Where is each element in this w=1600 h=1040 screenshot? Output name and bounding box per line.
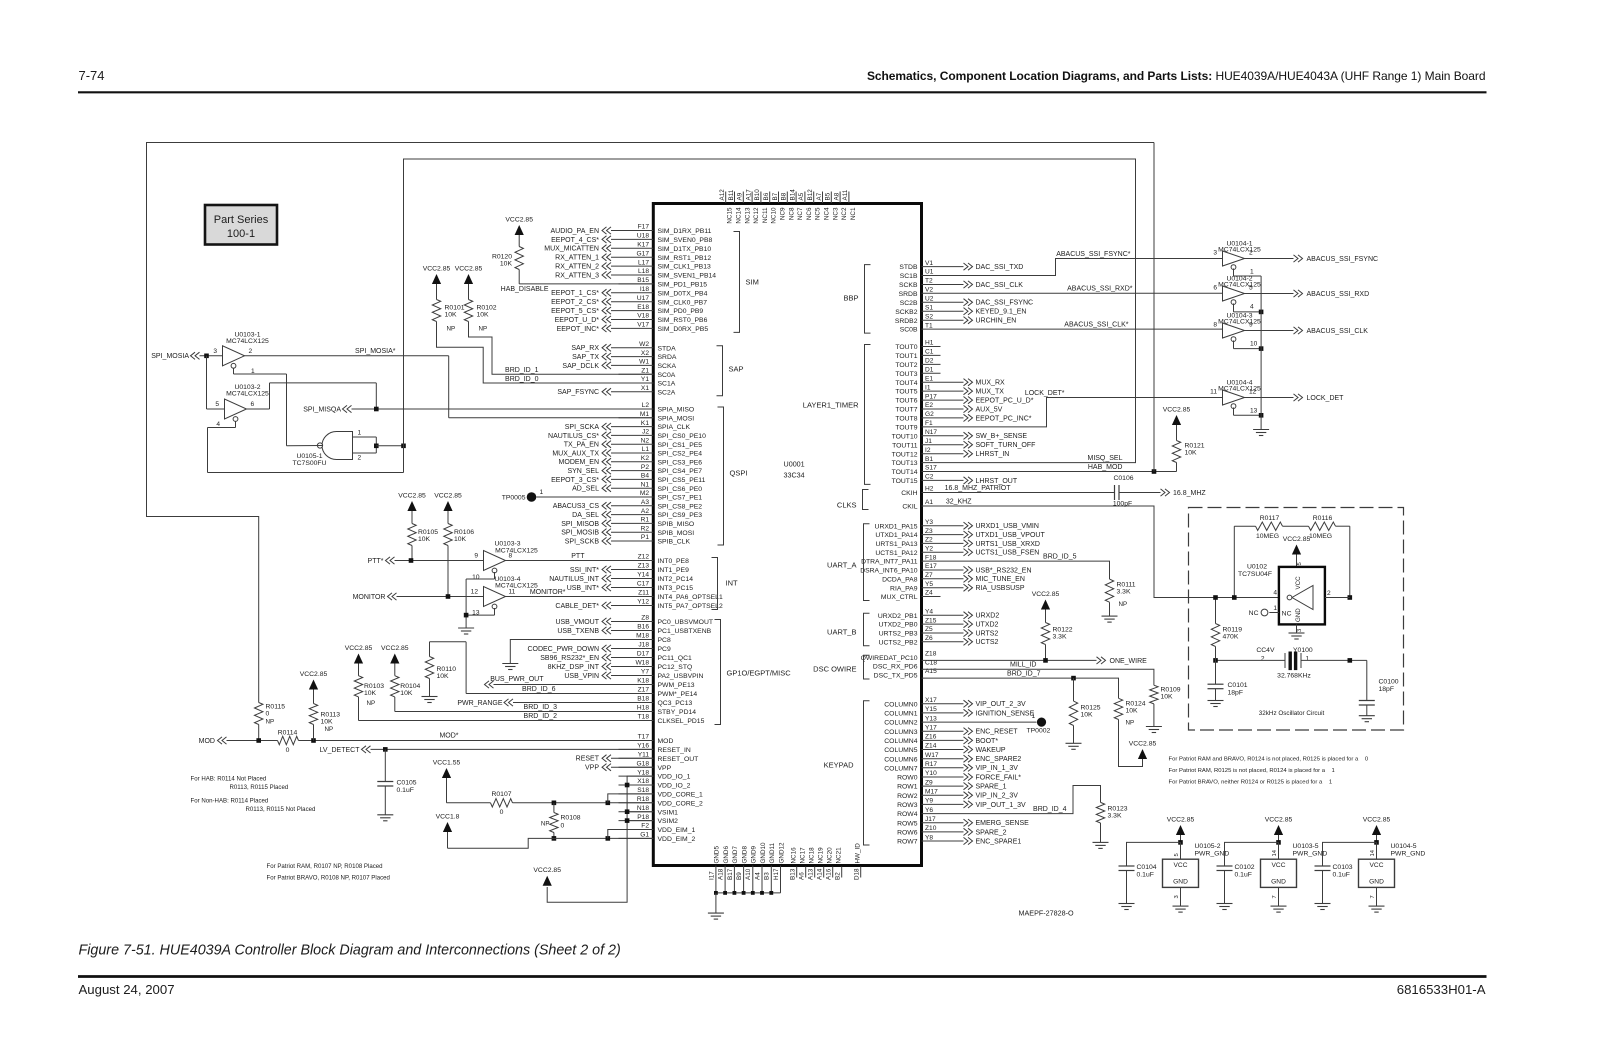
- svg-text:R0114: R0114: [278, 730, 298, 737]
- svg-text:TC7SU04F: TC7SU04F: [1238, 571, 1272, 578]
- svg-text:ENC_SPARE2: ENC_SPARE2: [976, 756, 1022, 763]
- ground: [1315, 903, 1331, 905]
- svg-text:100-1: 100-1: [227, 228, 255, 240]
- svg-text:MILL_ID: MILL_ID: [1010, 662, 1036, 669]
- resistor R0102: [464, 300, 472, 322]
- svg-text:2: 2: [249, 348, 253, 355]
- svg-text:RESET_OUT: RESET_OUT: [658, 756, 699, 763]
- nand input pins: [353, 436, 377, 438]
- VPP signal: [602, 764, 607, 771]
- svg-text:TOUT2: TOUT2: [895, 362, 917, 369]
- svg-text:D1: D1: [925, 367, 934, 374]
- svg-text:R0107: R0107: [491, 791, 511, 798]
- svg-text:DSRA_INT6_PA10: DSRA_INT6_PA10: [860, 568, 918, 575]
- svg-text:UART_A: UART_A: [827, 561, 856, 570]
- svg-text:Y11: Y11: [638, 752, 650, 759]
- svg-text:P2: P2: [641, 464, 649, 471]
- svg-text:5: 5: [1297, 562, 1303, 565]
- svg-text:H1: H1: [925, 340, 934, 347]
- svg-text:SAP: SAP: [729, 365, 744, 374]
- svg-text:Y1: Y1: [641, 376, 649, 383]
- svg-text:VCC2.85: VCC2.85: [1129, 741, 1157, 748]
- svg-text:ENC_SPARE1: ENC_SPARE1: [976, 838, 1022, 845]
- svg-text:U2: U2: [925, 296, 934, 303]
- svg-text:EEPOT_3_CS*: EEPOT_3_CS*: [551, 477, 599, 484]
- wire ABACUS_SSI_FSYNC output: [1245, 258, 1294, 260]
- svg-text:RX_ATTEN_3: RX_ATTEN_3: [555, 272, 599, 279]
- svg-text:INT: INT: [726, 579, 739, 588]
- svg-text:NP: NP: [266, 719, 275, 726]
- svg-text:TOUT9: TOUT9: [895, 425, 917, 432]
- svg-text:PTT*: PTT*: [368, 558, 384, 565]
- svg-text:SPI_CS3_PE6: SPI_CS3_PE6: [658, 459, 703, 466]
- svg-text:CC4V: CC4V: [1256, 647, 1275, 654]
- svg-text:BRD_ID_4: BRD_ID_4: [1033, 806, 1067, 813]
- wire 32_KHZ: [922, 506, 1279, 598]
- wire ABACUS_SSI_CLK output: [1245, 330, 1294, 332]
- svg-text:32_KHZ: 32_KHZ: [946, 499, 972, 506]
- svg-text:32.768KHz: 32.768KHz: [1277, 673, 1311, 680]
- capacitor C0102 0.1uF: [1225, 842, 1279, 866]
- svg-text:A1: A1: [925, 499, 933, 506]
- svg-text:10K: 10K: [400, 690, 413, 697]
- svg-text:MUX_CTRL: MUX_CTRL: [881, 594, 918, 601]
- svg-text:COLUMN5: COLUMN5: [884, 747, 917, 754]
- svg-text:URTS1_USB_XRXD: URTS1_USB_XRXD: [976, 541, 1040, 548]
- ground: [1119, 903, 1135, 905]
- capacitor C0106 100pF: [1114, 485, 1116, 500]
- IC U0001 33C34 body: [653, 204, 921, 866]
- svg-text:U1: U1: [925, 269, 934, 276]
- svg-text:R0105: R0105: [418, 529, 438, 536]
- svg-text:EEPOT_PC_U_D*: EEPOT_PC_U_D*: [976, 398, 1034, 405]
- svg-text:Z12: Z12: [638, 554, 650, 561]
- svg-text:T1: T1: [925, 322, 933, 329]
- svg-text:SCKA: SCKA: [658, 363, 677, 370]
- ground: [458, 627, 474, 629]
- svg-text:EEPOT_1_CS*: EEPOT_1_CS*: [551, 290, 599, 297]
- svg-text:3.3K: 3.3K: [1053, 634, 1067, 641]
- svg-text:1: 1: [540, 489, 544, 496]
- svg-text:EEPOT_4_CS*: EEPOT_4_CS*: [551, 237, 599, 244]
- svg-text:T17: T17: [638, 734, 650, 741]
- svg-text:B16: B16: [637, 624, 649, 631]
- svg-text:NC10: NC10: [771, 207, 778, 224]
- svg-text:ROW6: ROW6: [897, 830, 918, 837]
- svg-text:R0109: R0109: [1161, 687, 1181, 694]
- svg-text:L17: L17: [638, 259, 649, 266]
- svg-text:Y14: Y14: [637, 572, 649, 579]
- svg-text:MISQ_SEL: MISQ_SEL: [1087, 455, 1122, 462]
- svg-text:R0110: R0110: [437, 666, 457, 673]
- svg-text:B15: B15: [637, 277, 649, 284]
- svg-text:For Patriot RAM, R0107 NP, R01: For Patriot RAM, R0107 NP, R0108 Placed: [267, 863, 383, 870]
- svg-text:SPI_CS9_PE3: SPI_CS9_PE3: [658, 512, 703, 519]
- svg-text:BUS_PWR_OUT: BUS_PWR_OUT: [490, 676, 544, 683]
- svg-text:SIM_CLK1_PB13: SIM_CLK1_PB13: [658, 264, 711, 271]
- svg-text:GND: GND: [1271, 879, 1286, 886]
- svg-text:NP: NP: [325, 726, 334, 733]
- svg-text:SPI_MOSIA*: SPI_MOSIA*: [355, 348, 396, 355]
- svg-text:G2: G2: [925, 411, 934, 418]
- svg-text:A10: A10: [745, 868, 752, 880]
- svg-text:L2: L2: [642, 402, 650, 409]
- svg-text:SSI_INT*: SSI_INT*: [570, 567, 599, 574]
- resistor R0121: [1172, 441, 1180, 463]
- resistor R0111: [1105, 579, 1113, 602]
- svg-text:Figure 7-51. HUE4039A Controll: Figure 7-51. HUE4039A Controller Block D…: [79, 943, 621, 959]
- svg-text:G1: G1: [640, 832, 649, 839]
- svg-text:COLUMN2: COLUMN2: [884, 720, 917, 727]
- svg-text:Y4: Y4: [925, 609, 933, 616]
- svg-text:TX_PA_EN: TX_PA_EN: [564, 442, 599, 449]
- svg-text:Z8: Z8: [641, 615, 649, 622]
- svg-text:B11: B11: [728, 189, 735, 200]
- svg-text:BRD_ID_1: BRD_ID_1: [505, 367, 539, 374]
- svg-text:ROW1: ROW1: [897, 784, 918, 791]
- wire MILL_ID: [922, 669, 1154, 685]
- svg-text:U0104-5: U0104-5: [1391, 843, 1417, 850]
- svg-text:10K: 10K: [1185, 450, 1198, 457]
- svg-text:Part Series: Part Series: [214, 214, 269, 226]
- buffer U0104-4: [1223, 390, 1245, 405]
- svg-text:R0121: R0121: [1185, 443, 1205, 450]
- svg-text:NP: NP: [447, 326, 456, 333]
- VCC2.85 below R0124: [1119, 720, 1143, 767]
- svg-text:W1: W1: [639, 359, 649, 366]
- svg-text:SRDA: SRDA: [658, 354, 677, 361]
- svg-text:8KHZ_DSP_INT: 8KHZ_DSP_INT: [548, 664, 600, 671]
- svg-text:Schematics, Component Location: Schematics, Component Location Diagrams,…: [867, 69, 1486, 83]
- svg-text:TP0002: TP0002: [1027, 727, 1051, 734]
- svg-text:ABACUS_SSI_CLK: ABACUS_SSI_CLK: [1307, 328, 1369, 335]
- svg-text:Y5: Y5: [925, 581, 933, 588]
- svg-text:TOUT14: TOUT14: [892, 469, 918, 476]
- svg-text:HAB_MOD: HAB_MOD: [1088, 464, 1123, 471]
- svg-text:VDD_EIM_2: VDD_EIM_2: [658, 836, 696, 843]
- svg-text:RX_ATTEN_2: RX_ATTEN_2: [555, 264, 599, 271]
- buffer U0104-1: [1223, 251, 1245, 266]
- svg-text:T2: T2: [925, 278, 933, 285]
- svg-text:A12: A12: [719, 189, 726, 201]
- resistor R0121 10K: [1176, 463, 1178, 472]
- resistor R0125 10K: [1073, 678, 1075, 701]
- svg-text:A14: A14: [816, 868, 823, 880]
- svg-text:U17: U17: [637, 295, 649, 302]
- svg-text:R0102: R0102: [477, 305, 497, 312]
- wire input U0103-2: [206, 356, 208, 409]
- svg-text:33C34: 33C34: [784, 471, 805, 480]
- svg-text:S2: S2: [925, 313, 933, 320]
- CLKS group bracket: [863, 490, 869, 510]
- svg-text:VCC2.85: VCC2.85: [1163, 407, 1191, 414]
- svg-text:B7: B7: [772, 192, 779, 200]
- svg-text:S18: S18: [637, 787, 649, 794]
- svg-text:NC5: NC5: [815, 207, 822, 220]
- svg-text:INT2_PC14: INT2_PC14: [658, 576, 694, 583]
- svg-text:UTXD2: UTXD2: [976, 622, 999, 629]
- svg-text:F17: F17: [638, 224, 650, 231]
- svg-text:F2: F2: [641, 823, 649, 830]
- svg-text:J17: J17: [925, 816, 936, 823]
- svg-text:UTXD1_PA14: UTXD1_PA14: [875, 532, 917, 539]
- svg-text:SCKB: SCKB: [899, 282, 918, 289]
- svg-text:MOD: MOD: [199, 738, 215, 745]
- svg-text:8: 8: [1213, 322, 1217, 329]
- svg-text:4: 4: [216, 421, 220, 428]
- svg-text:12: 12: [471, 589, 479, 596]
- svg-text:GND12: GND12: [778, 842, 785, 863]
- svg-text:NC1: NC1: [850, 207, 857, 220]
- svg-text:14: 14: [1272, 849, 1278, 856]
- resistor R0105: [408, 524, 416, 546]
- svg-text:QSPI: QSPI: [730, 469, 748, 478]
- svg-text:R0124: R0124: [1126, 701, 1146, 708]
- svg-text:U18: U18: [637, 233, 649, 240]
- svg-text:SIM_SVEN1_PB14: SIM_SVEN1_PB14: [658, 273, 717, 280]
- svg-text:VCC2.85: VCC2.85: [300, 671, 328, 678]
- svg-text:1: 1: [1273, 605, 1277, 612]
- svg-text:3: 3: [213, 348, 217, 355]
- svg-text:R0116: R0116: [1313, 515, 1333, 522]
- svg-text:K18: K18: [637, 678, 649, 685]
- svg-text:LV_DETECT: LV_DETECT: [320, 747, 361, 754]
- BUS_PWR_OUT input: [485, 681, 490, 688]
- svg-text:NC12: NC12: [753, 207, 760, 224]
- svg-text:Y15: Y15: [925, 706, 937, 713]
- svg-text:SC1A: SC1A: [658, 381, 676, 388]
- svg-text:Y17: Y17: [925, 725, 937, 732]
- svg-text:GND: GND: [1295, 608, 1302, 622]
- svg-text:MONITOR: MONITOR: [353, 594, 386, 601]
- svg-text:MAEPF-27828-O: MAEPF-27828-O: [1019, 909, 1075, 918]
- svg-text:NC15: NC15: [727, 207, 734, 224]
- svg-text:EEPOT_PC_INC*: EEPOT_PC_INC*: [976, 415, 1032, 422]
- svg-text:SIM_D1TX_PB10: SIM_D1TX_PB10: [658, 246, 712, 253]
- svg-text:R1: R1: [641, 517, 650, 524]
- svg-text:BRD_ID_6: BRD_ID_6: [522, 686, 556, 693]
- svg-text:0.1uF: 0.1uF: [1235, 872, 1252, 879]
- svg-text:A11: A11: [842, 189, 849, 200]
- svg-text:Z11: Z11: [638, 590, 649, 597]
- svg-text:SPI_CS0_PE10: SPI_CS0_PE10: [658, 433, 707, 440]
- svg-text:SPI_MOSIB: SPI_MOSIB: [561, 530, 599, 537]
- svg-text:SPIB_MOSI: SPIB_MOSI: [658, 530, 695, 537]
- svg-text:SIM_D1RX_PB11: SIM_D1RX_PB11: [658, 228, 712, 235]
- svg-text:SOFT_TURN_OFF: SOFT_TURN_OFF: [976, 442, 1036, 449]
- svg-text:VCC2.85: VCC2.85: [381, 645, 409, 652]
- svg-text:KEYPAD: KEYPAD: [824, 761, 854, 770]
- svg-text:INT3_PC15: INT3_PC15: [658, 585, 694, 592]
- svg-text:ABACUS_SSI_RXD*: ABACUS_SSI_RXD*: [1067, 286, 1133, 293]
- svg-text:W17: W17: [925, 752, 939, 759]
- svg-text:18pF: 18pF: [1228, 690, 1244, 697]
- svg-text:SPIA_MISO: SPIA_MISO: [658, 407, 695, 414]
- svg-text:MUX_AUX_TX: MUX_AUX_TX: [552, 450, 599, 457]
- svg-text:Z3: Z3: [925, 528, 933, 535]
- svg-text:Z6: Z6: [925, 635, 933, 642]
- svg-text:VCC: VCC: [1272, 862, 1286, 869]
- svg-text:VCC2.85: VCC2.85: [1167, 817, 1195, 824]
- svg-text:TOUT15: TOUT15: [892, 478, 918, 485]
- svg-text:VCC2.85: VCC2.85: [455, 266, 483, 273]
- svg-text:UART_B: UART_B: [827, 628, 856, 637]
- svg-text:CABLE_DET*: CABLE_DET*: [555, 603, 599, 610]
- svg-text:GND5: GND5: [714, 846, 721, 864]
- svg-text:MOD*: MOD*: [439, 733, 458, 740]
- svg-text:COLUMN3: COLUMN3: [884, 729, 917, 736]
- svg-text:Y9: Y9: [925, 798, 933, 805]
- RESET signal: [602, 755, 607, 762]
- svg-text:SYN_SEL: SYN_SEL: [567, 468, 599, 475]
- svg-text:0.1uF: 0.1uF: [397, 787, 414, 794]
- svg-text:K1: K1: [641, 420, 649, 427]
- svg-text:R0115: R0115: [266, 704, 286, 711]
- svg-text:MOD: MOD: [658, 738, 674, 745]
- resistor R0125: [1069, 701, 1077, 725]
- svg-text:Z15: Z15: [925, 617, 937, 624]
- svg-text:DAC_SSI_TXD: DAC_SSI_TXD: [976, 264, 1024, 271]
- svg-text:SAP_RX: SAP_RX: [571, 345, 599, 352]
- resistor R0117: [1256, 522, 1283, 530]
- svg-text:RIA_PA9: RIA_PA9: [890, 585, 918, 592]
- svg-text:V2: V2: [925, 287, 933, 294]
- svg-text:NC8: NC8: [788, 207, 795, 220]
- svg-text:GND10: GND10: [760, 842, 767, 863]
- svg-text:R0106: R0106: [454, 529, 474, 536]
- svg-text:D2: D2: [925, 358, 934, 365]
- svg-text:R0122: R0122: [1053, 627, 1073, 634]
- resistor R0108: [550, 813, 558, 833]
- svg-text:Z9: Z9: [925, 779, 933, 786]
- footer rule: [78, 975, 1487, 978]
- svg-text:S1: S1: [925, 304, 933, 311]
- svg-text:SB96_RS232*_EN: SB96_RS232*_EN: [540, 655, 599, 662]
- svg-text:VDD_EIM_1: VDD_EIM_1: [658, 827, 696, 834]
- svg-text:R0125: R0125: [1081, 705, 1101, 712]
- svg-text:NC20: NC20: [826, 847, 833, 864]
- svg-text:SPI_MISQA: SPI_MISQA: [303, 407, 341, 414]
- svg-text:BRD_ID_0: BRD_ID_0: [505, 376, 539, 383]
- resistor R0108 0 NP: [553, 803, 555, 813]
- svg-text:R0113, R0115 Placed: R0113, R0115 Placed: [230, 784, 289, 791]
- ground: [1359, 715, 1375, 717]
- wire: [761, 866, 763, 893]
- svg-text:VSIM1: VSIM1: [658, 809, 679, 816]
- svg-text:MC74LCX125: MC74LCX125: [226, 338, 269, 345]
- svg-text:PC0_UBSVMOUT: PC0_UBSVMOUT: [658, 619, 714, 626]
- svg-text:SRDB: SRDB: [899, 291, 918, 298]
- svg-text:9: 9: [474, 553, 478, 560]
- resistor R0103: [354, 676, 362, 697]
- wire ABACUS_SSI_RXD output: [1245, 293, 1294, 295]
- svg-text:VDD_IO_2: VDD_IO_2: [658, 783, 691, 790]
- svg-text:COLUMN4: COLUMN4: [884, 738, 917, 745]
- svg-text:URCHIN_EN: URCHIN_EN: [976, 318, 1017, 325]
- svg-text:NP: NP: [1119, 601, 1128, 608]
- svg-text:NP: NP: [479, 326, 488, 333]
- svg-text:E2: E2: [925, 402, 933, 409]
- svg-text:URXD2: URXD2: [976, 613, 1000, 620]
- svg-text:PWM*_PE14: PWM*_PE14: [658, 691, 698, 698]
- svg-text:E17: E17: [925, 563, 937, 570]
- UART_B group bracket: [864, 613, 870, 646]
- wire HAB_MOD: [922, 471, 1177, 473]
- svg-text:LAYER1_TIMER: LAYER1_TIMER: [803, 401, 859, 410]
- inverter triangle (mirrored): [1292, 586, 1313, 610]
- ground: [1253, 429, 1269, 431]
- svg-text:I17: I17: [708, 871, 715, 880]
- svg-text:B12: B12: [807, 189, 814, 201]
- resistor R0120: [515, 247, 523, 270]
- ground: [1217, 903, 1233, 905]
- svg-text:RIA_USBSUSP: RIA_USBSUSP: [976, 585, 1025, 592]
- svg-text:CLKSEL_PD15: CLKSEL_PD15: [658, 718, 705, 725]
- svg-text:0: 0: [561, 823, 565, 830]
- svg-text:USB_TXENB: USB_TXENB: [557, 628, 599, 635]
- svg-text:MODEM_EN: MODEM_EN: [559, 459, 599, 466]
- svg-text:VCC2.85: VCC2.85: [398, 493, 426, 500]
- svg-text:PWR_RANGE: PWR_RANGE: [457, 700, 502, 707]
- svg-text:SPI_CS5_PE11: SPI_CS5_PE11: [658, 477, 706, 484]
- svg-text:C0100: C0100: [1379, 679, 1399, 686]
- svg-text:VCC2.85: VCC2.85: [1265, 817, 1293, 824]
- svg-text:GND9: GND9: [751, 846, 758, 864]
- bottom NC pins: [796, 867, 798, 878]
- svg-text:R0119: R0119: [1223, 627, 1243, 634]
- svg-text:1: 1: [1250, 268, 1254, 275]
- svg-text:Y6: Y6: [925, 807, 933, 814]
- wire VDD_EIM rail: [448, 838, 654, 848]
- svg-text:GND8: GND8: [741, 846, 748, 864]
- svg-text:MUX_TX: MUX_TX: [976, 389, 1005, 396]
- resistor R0113: [309, 704, 317, 725]
- svg-text:Y7: Y7: [641, 669, 649, 676]
- svg-text:E1: E1: [925, 375, 933, 382]
- svg-text:1: 1: [358, 430, 362, 437]
- svg-text:NC3: NC3: [832, 207, 839, 220]
- svg-text:A2: A2: [641, 508, 649, 515]
- svg-text:MC74LCX125: MC74LCX125: [495, 548, 538, 555]
- svg-text:470K: 470K: [1223, 634, 1239, 641]
- svg-text:4: 4: [1273, 590, 1277, 597]
- svg-text:URXD1_PA15: URXD1_PA15: [875, 523, 918, 530]
- svg-text:R0113, R0115 Not Placed: R0113, R0115 Not Placed: [246, 806, 316, 813]
- svg-text:11: 11: [509, 589, 516, 596]
- svg-text:W2: W2: [639, 341, 649, 348]
- svg-text:SC0A: SC0A: [658, 372, 676, 379]
- svg-text:Z5: Z5: [925, 626, 933, 633]
- svg-text:RESET: RESET: [576, 756, 600, 763]
- svg-text:GND: GND: [1173, 879, 1188, 886]
- svg-text:COLUMN0: COLUMN0: [884, 701, 917, 708]
- svg-text:AD_SEL: AD_SEL: [572, 486, 599, 493]
- svg-text:0: 0: [500, 809, 504, 816]
- svg-text:NC9: NC9: [780, 207, 787, 220]
- svg-text:A9: A9: [737, 192, 744, 200]
- resistor R0106: [444, 524, 452, 546]
- svg-text:SPI_CS4_PE7: SPI_CS4_PE7: [658, 468, 703, 475]
- svg-text:C1: C1: [925, 349, 934, 356]
- svg-text:P17: P17: [925, 393, 937, 400]
- svg-text:Z4: Z4: [925, 590, 933, 597]
- svg-text:16.8_MHZ: 16.8_MHZ: [1173, 490, 1206, 497]
- svg-text:10K: 10K: [1126, 708, 1139, 715]
- capacitor C0103 0.1uF: [1323, 842, 1377, 866]
- resistor R0114: [278, 736, 299, 744]
- resistor R0107: [491, 799, 513, 807]
- svg-text:A18: A18: [718, 868, 725, 880]
